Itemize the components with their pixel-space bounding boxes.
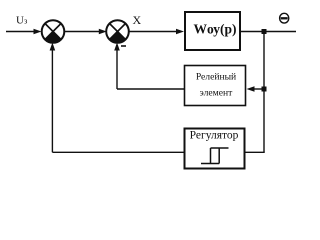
wire: relay element output to S2 (minus input) — [114, 43, 184, 90]
summing junction S1 — [42, 20, 65, 43]
node: output junction — [262, 29, 267, 34]
wire: feedback vertical drop — [263, 32, 265, 153]
label Uз — [16, 15, 28, 27]
label minus sign — [121, 45, 126, 47]
svg-text:Uз: Uз — [16, 15, 28, 27]
svg-text:Релейный: Релейный — [196, 72, 236, 83]
svg-text:X: X — [133, 13, 142, 27]
summing junction S2 — [106, 20, 129, 43]
wire: input to summer S1 — [6, 29, 42, 35]
svg-text:Wоу(p): Wоу(p) — [194, 22, 237, 37]
relay hysteresis characteristic symbol inside Регулятор — [201, 148, 229, 164]
wire: output from Wоу(p) — [241, 31, 296, 33]
wire: S1 to S2 — [64, 29, 107, 35]
wire: junction into relay element right side — [247, 86, 265, 92]
svg-text:Регулятор: Регулятор — [190, 130, 239, 142]
block Релейный элемент — [185, 66, 246, 106]
block Регулятор — [185, 129, 245, 169]
block Wоу(p) — [185, 12, 240, 50]
wire: regulator output to S1 (bottom input) — [50, 43, 184, 153]
wire: S2 to block Wоу(p) — [128, 29, 184, 35]
label X — [133, 13, 142, 27]
svg-text:элемент: элемент — [200, 88, 233, 99]
node: junction to relay element — [262, 87, 267, 92]
wire: feedback into regulator right side — [245, 151, 265, 153]
label Θ — [280, 13, 289, 23]
